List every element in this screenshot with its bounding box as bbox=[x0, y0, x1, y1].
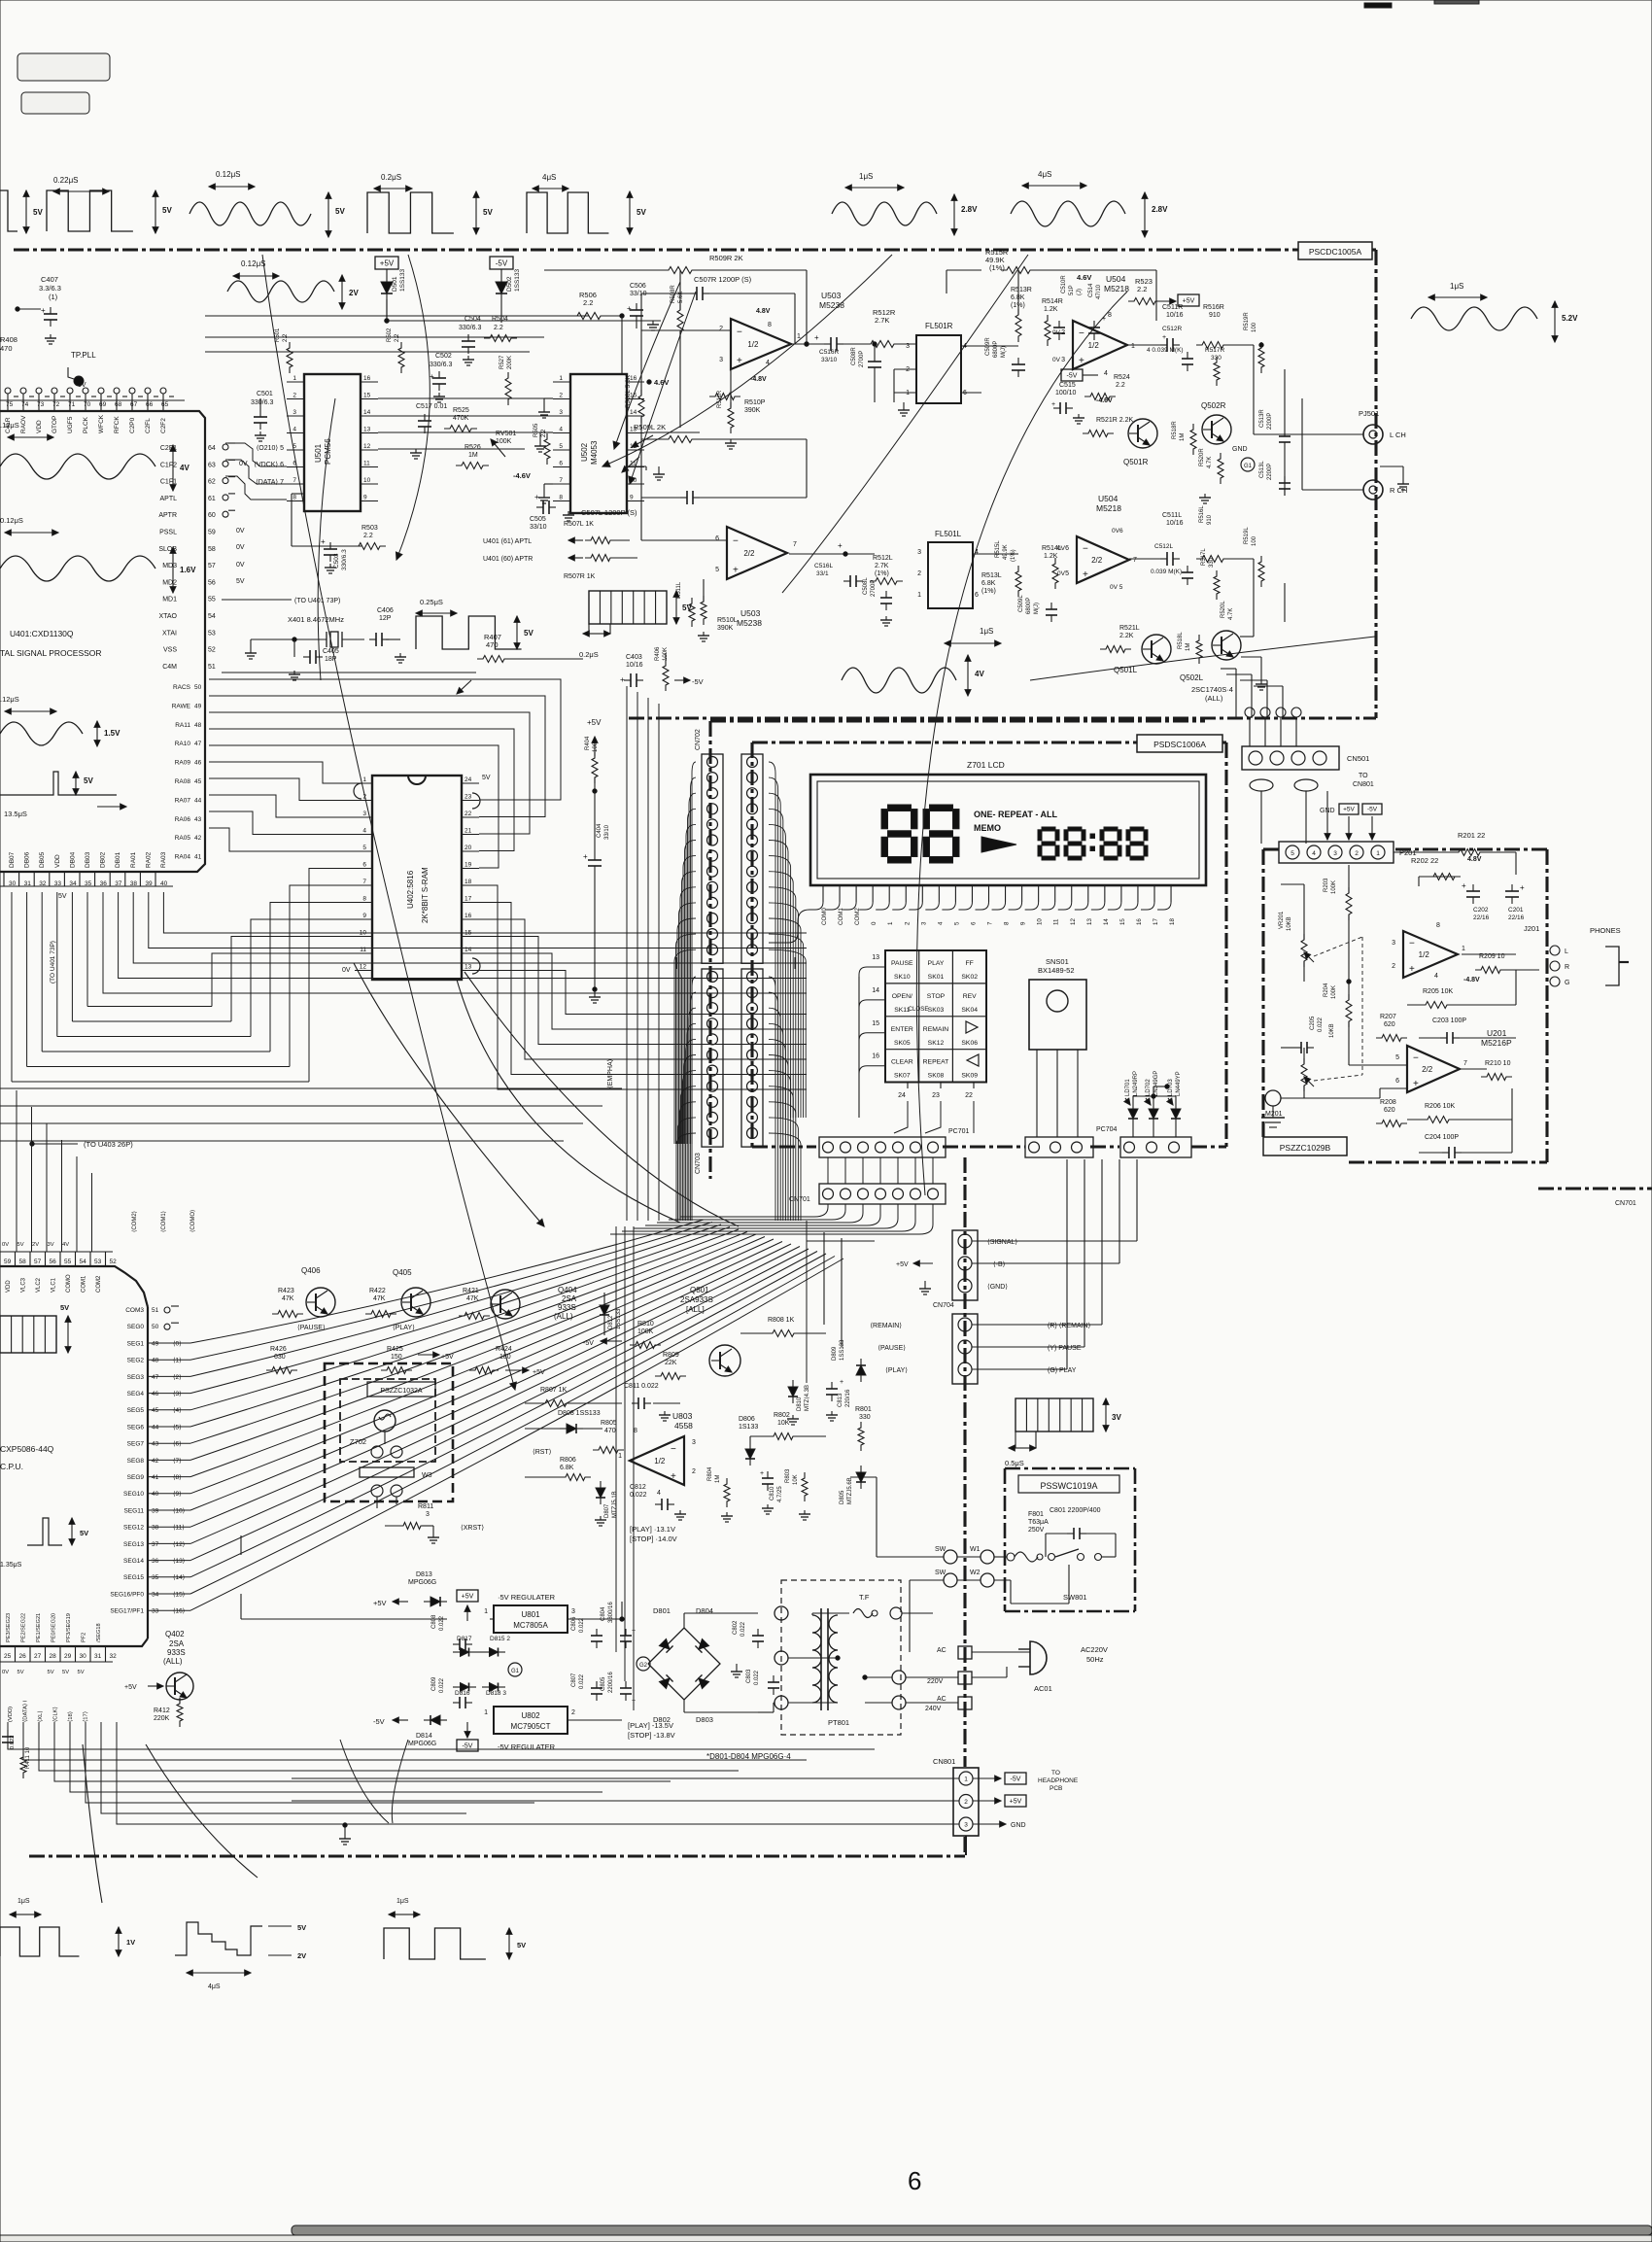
svg-text:15: 15 bbox=[1119, 918, 1126, 925]
svg-text:0V 5: 0V 5 bbox=[1110, 584, 1123, 591]
jack PJ501 L CH bbox=[1322, 409, 1406, 444]
svg-text:CN702: CN702 bbox=[695, 729, 702, 750]
svg-text:0.5μS: 0.5μS bbox=[1005, 1459, 1024, 1467]
arrow into U501 pins bbox=[613, 282, 696, 484]
svg-text:33/10: 33/10 bbox=[604, 824, 610, 840]
svg-text:6800P: 6800P bbox=[993, 341, 999, 358]
capacitor C405 18P bbox=[289, 639, 339, 680]
svg-text:933S: 933S bbox=[558, 1303, 576, 1312]
svg-text:DB02: DB02 bbox=[100, 851, 107, 868]
svg-text:30: 30 bbox=[80, 1653, 87, 1660]
svg-text:0V: 0V bbox=[236, 528, 245, 535]
svg-text:16: 16 bbox=[363, 375, 371, 382]
Z702 contact circles upper bbox=[371, 1446, 402, 1458]
IC U402 5816 S-RAM body bbox=[372, 776, 462, 980]
svg-text:PF3/SEG19: PF3/SEG19 bbox=[66, 1613, 72, 1642]
svg-text:R210 10: R210 10 bbox=[1485, 1060, 1511, 1067]
jack PJ501 R CH bbox=[1322, 466, 1409, 500]
svg-text:U502: U502 bbox=[580, 442, 589, 462]
svg-text:[PLAY] ·13.1V: [PLAY] ·13.1V bbox=[630, 1525, 675, 1534]
svg-text:M(J): M(J) bbox=[1001, 346, 1007, 358]
Z702 contact circles lower bbox=[371, 1485, 402, 1508]
transistor Q407 third bbox=[459, 1288, 545, 1376]
svg-text:SK09: SK09 bbox=[961, 1073, 978, 1080]
C513R 2200P vertical bbox=[1259, 409, 1291, 449]
svg-text:PE0/SEG20: PE0/SEG20 bbox=[52, 1613, 57, 1642]
svg-text:1M: 1M bbox=[715, 1475, 721, 1483]
svg-text:SEG16/PF0: SEG16/PF0 bbox=[110, 1591, 144, 1598]
svg-text:4μS: 4μS bbox=[208, 1983, 221, 1990]
svg-text:250V: 250V bbox=[1028, 1527, 1045, 1534]
CN801 feed wires bbox=[292, 1778, 966, 1855]
svg-text:5: 5 bbox=[362, 845, 366, 851]
svg-text:240V: 240V bbox=[925, 1706, 942, 1712]
svg-text:48: 48 bbox=[194, 722, 202, 729]
D805 MTZJ5.6B bbox=[840, 1466, 866, 1504]
IC U802 MC7905CT bbox=[484, 1707, 622, 1734]
svg-text:MTZJ5.1B: MTZJ5.1B bbox=[612, 1491, 618, 1518]
svg-text:8: 8 bbox=[1436, 922, 1440, 929]
svg-text:+: + bbox=[1083, 569, 1088, 580]
R518R 1M vertical bbox=[1172, 421, 1196, 455]
svg-text:2.2K: 2.2K bbox=[1119, 633, 1134, 639]
svg-text:⟨DATA⟩ 7: ⟨DATA⟩ 7 bbox=[256, 478, 284, 486]
svg-text:(J): (J) bbox=[1077, 289, 1083, 295]
PSZZC1032A outer dash border bbox=[325, 1363, 453, 1501]
svg-text:R519L: R519L bbox=[1244, 527, 1250, 544]
svg-text:D810: D810 bbox=[797, 1397, 803, 1411]
svg-text:RA07: RA07 bbox=[175, 797, 191, 804]
svg-text:⟨PAUSE⟩: ⟨PAUSE⟩ bbox=[878, 1344, 906, 1352]
C514 47/10 bbox=[1088, 283, 1106, 340]
D808 1SS133 bbox=[525, 1410, 602, 1433]
svg-text:8: 8 bbox=[768, 322, 772, 328]
svg-text:REV: REV bbox=[963, 993, 977, 1000]
svg-text:1M: 1M bbox=[1186, 643, 1191, 651]
svg-text:47K: 47K bbox=[373, 1295, 386, 1302]
svg-text:C406: C406 bbox=[377, 607, 394, 614]
svg-text:2: 2 bbox=[1392, 963, 1395, 970]
svg-text:R524: R524 bbox=[1114, 374, 1130, 381]
RAM right side bus loops bbox=[479, 885, 807, 1089]
svg-text:PSSWC1019A: PSSWC1019A bbox=[1040, 1481, 1097, 1491]
D816 D818 diodes bbox=[453, 1683, 506, 1698]
svg-text:2SA: 2SA bbox=[169, 1639, 185, 1648]
svg-text:6800P: 6800P bbox=[1026, 598, 1032, 614]
svg-text:100: 100 bbox=[1252, 535, 1257, 546]
svg-text:⟨GND⟩: ⟨GND⟩ bbox=[987, 1283, 1008, 1291]
svg-text:R207: R207 bbox=[1380, 1014, 1396, 1020]
U502 right pins bbox=[627, 375, 644, 501]
svg-text:1μS: 1μS bbox=[17, 1898, 30, 1905]
svg-text:220/16: 220/16 bbox=[845, 1389, 851, 1407]
M201 ground circle bbox=[1261, 1090, 1304, 1127]
svg-text:39: 39 bbox=[152, 1507, 159, 1514]
U803 pins bbox=[618, 1428, 696, 1497]
U401 top pin row 75-65 bbox=[5, 388, 174, 433]
waveform W-C1 0.12uS sine 2V bbox=[227, 259, 359, 309]
C507R 1200P cap bbox=[641, 275, 795, 344]
R209 10 bbox=[1462, 953, 1539, 974]
svg-text:CN703: CN703 bbox=[695, 1153, 702, 1174]
svg-text:C502: C502 bbox=[435, 353, 452, 360]
transformer T.F fuse top bbox=[812, 1593, 965, 1619]
svg-text:R509R 2K: R509R 2K bbox=[709, 254, 743, 262]
svg-text:25: 25 bbox=[4, 1653, 12, 1660]
svg-text:1: 1 bbox=[1376, 850, 1380, 857]
svg-text:ONE- REPEAT - ALL: ONE- REPEAT - ALL bbox=[974, 810, 1057, 819]
svg-text:5V: 5V bbox=[84, 776, 93, 785]
svg-text:SEG11: SEG11 bbox=[124, 1507, 145, 1514]
svg-text:2700P: 2700P bbox=[859, 351, 865, 367]
svg-text:3: 3 bbox=[559, 409, 563, 416]
svg-text:3300/16: 3300/16 bbox=[608, 1602, 614, 1623]
svg-text:R422: R422 bbox=[369, 1288, 386, 1294]
D809 1SS133 vertical bbox=[832, 1339, 866, 1382]
C511L 10/16 bbox=[1129, 512, 1184, 566]
U503 U501 pointer arrows bbox=[612, 435, 768, 573]
svg-text:+: + bbox=[737, 356, 742, 366]
svg-text:C503: C503 bbox=[333, 553, 340, 569]
R804 1M vertical bbox=[707, 1466, 733, 1522]
LCD stub bus collector bbox=[769, 910, 809, 943]
svg-text:3: 3 bbox=[917, 549, 921, 556]
svg-text:PC701: PC701 bbox=[948, 1128, 970, 1135]
svg-text:C801 2200P/400: C801 2200P/400 bbox=[1050, 1507, 1101, 1514]
svg-text:4: 4 bbox=[657, 1490, 661, 1497]
svg-text:R404: R404 bbox=[585, 736, 591, 750]
svg-text:PSCDC1005A: PSCDC1005A bbox=[1309, 247, 1362, 257]
svg-text:SEG12: SEG12 bbox=[123, 1525, 144, 1532]
svg-text:55: 55 bbox=[208, 597, 216, 604]
diode D502 1SS133 bbox=[496, 268, 521, 323]
svg-text:0V: 0V bbox=[2, 1242, 9, 1248]
svg-text:X401 8.4672MHz: X401 8.4672MHz bbox=[288, 615, 344, 624]
C804 3300/16 vertical bbox=[601, 1602, 636, 1648]
svg-text:46: 46 bbox=[194, 760, 202, 767]
svg-text:47/10: 47/10 bbox=[1096, 284, 1102, 299]
svg-text:R810: R810 bbox=[637, 1321, 654, 1328]
label D801-D804 MPG06G*4 bbox=[706, 1752, 791, 1761]
op-amp U201 2/2 bbox=[1407, 1028, 1512, 1092]
label Q404 2SA933S ALL bbox=[554, 1286, 577, 1321]
svg-text:0.022: 0.022 bbox=[630, 1492, 647, 1499]
svg-text:22: 22 bbox=[465, 811, 472, 817]
svg-text:R408: R408 bbox=[0, 335, 17, 344]
svg-text:RACS: RACS bbox=[173, 684, 191, 691]
svg-text:0.039 M(K): 0.039 M(K) bbox=[1151, 569, 1182, 575]
svg-text:0V: 0V bbox=[236, 544, 245, 551]
svg-text:PT801: PT801 bbox=[828, 1718, 849, 1727]
svg-text:LD701: LD701 bbox=[1125, 1079, 1131, 1096]
svg-text:⟨EMPHA⟩: ⟨EMPHA⟩ bbox=[606, 1058, 614, 1088]
svg-text:41: 41 bbox=[152, 1474, 159, 1481]
svg-text:4μS: 4μS bbox=[542, 173, 556, 182]
svg-text:C809: C809 bbox=[431, 1676, 437, 1691]
svg-text:R501: R501 bbox=[275, 328, 281, 342]
wire fb R channel bbox=[795, 270, 1156, 321]
keypad bottom pins 24 23 22 bbox=[894, 1082, 974, 1133]
svg-text:14: 14 bbox=[630, 409, 637, 416]
svg-text:1M: 1M bbox=[1180, 433, 1186, 441]
svg-text:33/1: 33/1 bbox=[816, 570, 829, 577]
svg-text:13: 13 bbox=[1086, 918, 1093, 925]
svg-text:3: 3 bbox=[906, 343, 910, 350]
waveform W-B1 0.12uS sine 4V bbox=[0, 421, 189, 491]
svg-text:C517 0.01: C517 0.01 bbox=[416, 403, 447, 410]
svg-text:4μS: 4μS bbox=[1038, 170, 1051, 179]
svg-text:55: 55 bbox=[64, 1259, 72, 1265]
svg-text:R518L: R518L bbox=[1178, 632, 1184, 649]
label 13.5uS bbox=[4, 804, 126, 818]
svg-text:24: 24 bbox=[465, 776, 472, 783]
svg-text:OPEN/: OPEN/ bbox=[892, 993, 912, 1000]
svg-text:1SS133: 1SS133 bbox=[840, 1339, 845, 1361]
svg-text:G1: G1 bbox=[511, 1669, 520, 1674]
svg-text:-4.6V: -4.6V bbox=[1096, 397, 1113, 404]
svg-text:C513L: C513L bbox=[1259, 461, 1265, 478]
svg-text:2.2: 2.2 bbox=[1137, 285, 1147, 293]
svg-text:C514: C514 bbox=[1088, 283, 1094, 297]
svg-text:RA05: RA05 bbox=[175, 835, 191, 842]
svg-text:13.5μS: 13.5μS bbox=[4, 810, 27, 818]
svg-text:1μS: 1μS bbox=[396, 1898, 409, 1905]
svg-text:D807: D807 bbox=[604, 1503, 610, 1518]
svg-text:+5V: +5V bbox=[380, 259, 395, 268]
RAM left pin loops to CPU-DB verticals bbox=[12, 869, 355, 1083]
scan ghost marks top-left bbox=[17, 53, 110, 81]
svg-text:R811: R811 bbox=[418, 1503, 433, 1510]
svg-text:5: 5 bbox=[1291, 850, 1294, 857]
R520L 4.7K bbox=[1221, 601, 1234, 620]
svg-text:0.022: 0.022 bbox=[740, 1621, 746, 1637]
svg-text:12: 12 bbox=[1070, 918, 1077, 925]
svg-text:0.25μS: 0.25μS bbox=[420, 598, 443, 606]
svg-text:(1%): (1%) bbox=[989, 263, 1005, 272]
svg-text:5: 5 bbox=[559, 443, 563, 450]
R512R 2.7K bbox=[843, 308, 916, 348]
svg-text:5V: 5V bbox=[524, 629, 533, 638]
svg-text:14: 14 bbox=[872, 987, 879, 994]
svg-text:T.F: T.F bbox=[859, 1593, 870, 1602]
U503R pin labels bbox=[719, 308, 801, 383]
svg-text:-5V: -5V bbox=[1367, 807, 1378, 813]
svg-text:(TO U403 26P): (TO U403 26P) bbox=[84, 1140, 133, 1149]
svg-text:CN801: CN801 bbox=[933, 1757, 955, 1766]
connector LED header bbox=[1120, 1137, 1191, 1157]
U402 pin1 bracket bbox=[354, 783, 361, 799]
svg-text:PC704: PC704 bbox=[1096, 1126, 1118, 1133]
svg-text:MEMO: MEMO bbox=[974, 823, 1001, 833]
svg-text:C515: C515 bbox=[1059, 382, 1076, 389]
CN702 wire loops right bbox=[769, 762, 806, 1221]
svg-text:1μS: 1μS bbox=[1450, 282, 1463, 291]
left bus verticals to CPU top pins bbox=[17, 1090, 92, 1252]
R803 10K vertical bbox=[785, 1468, 810, 1520]
svg-text:SEG10: SEG10 bbox=[123, 1491, 144, 1498]
svg-text:2.2: 2.2 bbox=[1116, 382, 1125, 389]
svg-text:390K: 390K bbox=[717, 625, 734, 632]
waveform W-D1 1uS sine 4V bbox=[842, 627, 1001, 696]
transformer primary coil bbox=[812, 1615, 821, 1703]
C803 0.022 vertical bbox=[731, 1664, 779, 1695]
resistor R408 470 bbox=[0, 335, 17, 353]
waveform W-A4 4uS square bbox=[527, 173, 646, 234]
svg-text:R205 10K: R205 10K bbox=[1423, 988, 1453, 995]
svg-text:⟨XL⟩: ⟨XL⟩ bbox=[37, 1710, 44, 1722]
svg-text:DB01: DB01 bbox=[115, 851, 121, 868]
svg-text:330/6.3: 330/6.3 bbox=[459, 325, 481, 331]
svg-text:18: 18 bbox=[465, 879, 472, 885]
svg-text:⟨PLAY⟩: ⟨PLAY⟩ bbox=[885, 1366, 908, 1374]
capacitor C501 330/6.3 bbox=[251, 391, 273, 441]
svg-text:R502: R502 bbox=[387, 328, 393, 342]
svg-text:VDD: VDD bbox=[54, 854, 61, 868]
svg-text:16: 16 bbox=[465, 913, 472, 919]
resistor R502 2.2 vertical bbox=[387, 328, 404, 373]
waveform W-B2 sine 1.6V bbox=[0, 516, 196, 593]
CPU bottom pin row bbox=[0, 1613, 117, 1722]
wire C4M bus bbox=[222, 659, 583, 694]
G2 ground circle bbox=[637, 1657, 650, 1671]
svg-text:0.022: 0.022 bbox=[579, 1673, 585, 1689]
transistor Q406 bbox=[266, 1266, 335, 1374]
svg-text:4V: 4V bbox=[180, 464, 189, 472]
svg-text:5V: 5V bbox=[335, 207, 345, 216]
svg-text:11: 11 bbox=[1053, 918, 1060, 925]
R207 620 bbox=[1376, 1014, 1407, 1042]
svg-text:-5V: -5V bbox=[583, 1340, 594, 1347]
svg-text:2.2: 2.2 bbox=[583, 298, 593, 307]
svg-text:4.7K: 4.7K bbox=[1207, 457, 1213, 468]
svg-text:C516R: C516R bbox=[819, 349, 840, 356]
svg-text:(VDD): (VDD) bbox=[8, 1707, 14, 1722]
svg-text:U802: U802 bbox=[521, 1711, 540, 1720]
svg-text:SEG3: SEG3 bbox=[127, 1374, 145, 1381]
vertical dashdot line x993 bbox=[963, 1157, 966, 1856]
R208 620 bbox=[1376, 1099, 1407, 1127]
long horizontals below RAM bbox=[0, 1088, 622, 1141]
svg-text:D501: D501 bbox=[392, 276, 398, 292]
U502 grounds bbox=[534, 398, 665, 503]
svg-text:+: + bbox=[760, 1470, 764, 1477]
svg-text:U201: U201 bbox=[1487, 1028, 1507, 1038]
svg-text:5.6K: 5.6K bbox=[678, 292, 684, 303]
svg-text:4V: 4V bbox=[62, 1242, 69, 1248]
svg-text:4: 4 bbox=[937, 921, 944, 925]
svg-text:1: 1 bbox=[293, 375, 296, 382]
svg-text:R525: R525 bbox=[453, 407, 469, 414]
capacitor C406 12P bbox=[369, 607, 406, 663]
comb waveform 3V bbox=[1005, 1398, 1121, 1467]
svg-text:R805: R805 bbox=[601, 1420, 617, 1427]
svg-text:36: 36 bbox=[152, 1558, 159, 1565]
svg-text:933S: 933S bbox=[167, 1648, 186, 1657]
R811 3 bbox=[385, 1503, 439, 1543]
U502 left pins bbox=[553, 375, 570, 501]
PSDSC inner border top bbox=[752, 741, 1226, 743]
C805 2200/16 vertical bbox=[601, 1672, 636, 1705]
svg-text:73: 73 bbox=[37, 401, 45, 408]
svg-text:AC: AC bbox=[937, 1647, 946, 1654]
svg-text:5V: 5V bbox=[297, 1923, 306, 1932]
svg-text:6: 6 bbox=[908, 2166, 921, 2195]
svg-text:C509L: C509L bbox=[1018, 595, 1024, 612]
svg-text:52: 52 bbox=[208, 647, 216, 654]
connector CN702 column B bbox=[741, 754, 763, 963]
svg-text:SEG6: SEG6 bbox=[127, 1424, 145, 1431]
U401 name text bbox=[0, 629, 102, 658]
svg-text:SEG1: SEG1 bbox=[127, 1340, 145, 1347]
VR201 10KB pot bbox=[1279, 911, 1314, 982]
svg-text:⟨REMAIN⟩: ⟨REMAIN⟩ bbox=[870, 1322, 902, 1329]
svg-text:+: + bbox=[1051, 401, 1055, 408]
svg-text:⟨DATA⟩ I: ⟨DATA⟩ I bbox=[22, 1700, 29, 1722]
svg-text:330/6.3: 330/6.3 bbox=[341, 549, 348, 570]
svg-text:150: 150 bbox=[391, 1354, 402, 1361]
svg-text:9: 9 bbox=[630, 495, 634, 501]
svg-text:2/2: 2/2 bbox=[743, 549, 755, 558]
R412 220K bbox=[154, 1698, 183, 1727]
svg-text:53: 53 bbox=[94, 1259, 102, 1265]
wire top bus PSCDC bbox=[205, 337, 544, 374]
U401 pin55 to (TO U401 73P) bbox=[222, 598, 340, 604]
svg-text:PHONES: PHONES bbox=[1590, 926, 1621, 935]
svg-text:C804: C804 bbox=[601, 1606, 606, 1621]
fuse F801 bbox=[1007, 1511, 1049, 1562]
svg-text:(1): (1) bbox=[49, 293, 58, 301]
svg-text:R503: R503 bbox=[361, 525, 378, 532]
svg-text:1.5V: 1.5V bbox=[104, 729, 120, 738]
svg-text:R: R bbox=[1565, 964, 1569, 971]
svg-text:AC01: AC01 bbox=[1034, 1684, 1052, 1693]
C510R 51P bbox=[1053, 275, 1083, 340]
connector CN704 lower bbox=[952, 1314, 978, 1384]
svg-text:1/2: 1/2 bbox=[1088, 341, 1100, 350]
waveform W-B4 pulse 5V bbox=[0, 772, 117, 795]
svg-text:D813: D813 bbox=[416, 1571, 432, 1578]
svg-text:R204: R204 bbox=[1324, 983, 1329, 997]
svg-text:SW801: SW801 bbox=[1063, 1593, 1087, 1602]
R809 22K bbox=[655, 1352, 686, 1380]
svg-text:16: 16 bbox=[872, 1053, 879, 1060]
svg-text:+: + bbox=[814, 333, 819, 342]
svg-text:7: 7 bbox=[1133, 557, 1137, 564]
svg-text:2.8V: 2.8V bbox=[1152, 205, 1168, 214]
R514R 1.2K bbox=[1042, 298, 1063, 346]
svg-text:48: 48 bbox=[152, 1358, 159, 1364]
transformer secondary coil bbox=[829, 1615, 838, 1703]
PSZZC1029B border bbox=[1263, 849, 1547, 1162]
svg-text:R516R: R516R bbox=[1203, 304, 1224, 311]
svg-text:1/2: 1/2 bbox=[654, 1457, 666, 1466]
svg-text:C403: C403 bbox=[626, 654, 642, 661]
svg-text:40: 40 bbox=[152, 1491, 159, 1498]
svg-text:0V: 0V bbox=[2, 1670, 9, 1675]
svg-text:1: 1 bbox=[484, 1608, 488, 1615]
svg-text:(1%): (1%) bbox=[981, 588, 996, 595]
svg-text:910: 910 bbox=[1207, 514, 1213, 525]
op-amp U503 2/2 (L) bbox=[727, 527, 787, 628]
svg-text:57: 57 bbox=[34, 1259, 42, 1265]
svg-text:46: 46 bbox=[152, 1391, 159, 1397]
svg-text:71: 71 bbox=[68, 401, 76, 408]
svg-text:RV501: RV501 bbox=[496, 431, 516, 437]
R509L 2K bbox=[634, 423, 807, 443]
svg-text:5V: 5V bbox=[58, 893, 67, 900]
+5V R404 100 bbox=[585, 718, 602, 793]
svg-text:(G) PLAY: (G) PLAY bbox=[1048, 1367, 1077, 1374]
